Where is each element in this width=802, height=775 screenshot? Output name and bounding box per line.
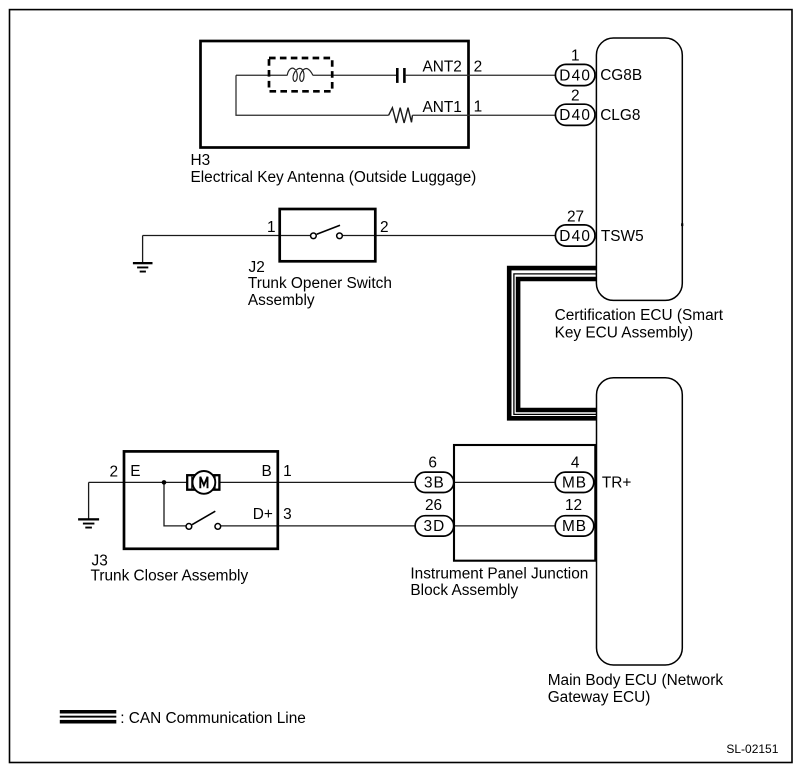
svg-text:MB: MB xyxy=(562,518,587,535)
svg-text:E: E xyxy=(130,463,140,480)
svg-text:1: 1 xyxy=(474,99,483,116)
svg-text:4: 4 xyxy=(571,454,580,471)
svg-text:H3: H3 xyxy=(191,152,211,169)
svg-text:Instrument Panel Junction: Instrument Panel Junction xyxy=(410,565,588,582)
svg-text:2: 2 xyxy=(380,219,389,236)
svg-text:Electrical Key Antenna (Outsid: Electrical Key Antenna (Outside Luggage) xyxy=(191,169,477,186)
svg-text:MB: MB xyxy=(562,475,587,492)
svg-text:Assembly: Assembly xyxy=(248,292,315,309)
svg-text:D+: D+ xyxy=(253,506,273,523)
svg-text:27: 27 xyxy=(567,209,584,226)
svg-text:Main Body ECU (Network: Main Body ECU (Network xyxy=(548,672,724,689)
svg-text:26: 26 xyxy=(425,497,442,514)
svg-text:Certification ECU (Smart: Certification ECU (Smart xyxy=(555,307,724,324)
svg-text:3D: 3D xyxy=(424,518,446,535)
svg-text:12: 12 xyxy=(565,497,582,514)
svg-text:B: B xyxy=(262,463,272,480)
svg-text:Block Assembly: Block Assembly xyxy=(410,582,518,599)
svg-text:SL-02151: SL-02151 xyxy=(726,742,778,756)
svg-text:D40: D40 xyxy=(559,67,591,84)
svg-text:Trunk Opener Switch: Trunk Opener Switch xyxy=(248,275,392,292)
svg-text:D40: D40 xyxy=(559,107,591,124)
svg-text:2: 2 xyxy=(571,88,580,105)
svg-text:2: 2 xyxy=(474,58,483,75)
svg-text:Gateway ECU): Gateway ECU) xyxy=(548,689,651,706)
svg-text:3: 3 xyxy=(283,506,292,523)
svg-text:ANT1: ANT1 xyxy=(423,99,462,116)
svg-text:3B: 3B xyxy=(424,475,445,492)
svg-text:CLG8: CLG8 xyxy=(600,107,640,124)
svg-text:D40: D40 xyxy=(559,228,591,245)
svg-text:TSW5: TSW5 xyxy=(601,228,644,245)
svg-text:TR+: TR+ xyxy=(602,475,632,492)
svg-text:1: 1 xyxy=(571,47,580,64)
svg-text:1: 1 xyxy=(283,463,292,480)
svg-text:6: 6 xyxy=(428,454,437,471)
svg-text:CG8B: CG8B xyxy=(600,67,642,84)
svg-text:2: 2 xyxy=(109,463,118,480)
svg-text:ANT2: ANT2 xyxy=(423,59,462,76)
svg-text:J2: J2 xyxy=(249,259,265,276)
svg-text:Trunk Closer Assembly: Trunk Closer Assembly xyxy=(91,568,249,585)
svg-text:: CAN Communication Line: : CAN Communication Line xyxy=(120,710,306,727)
svg-text:1: 1 xyxy=(267,219,276,236)
svg-text:Key ECU Assembly): Key ECU Assembly) xyxy=(555,324,694,341)
